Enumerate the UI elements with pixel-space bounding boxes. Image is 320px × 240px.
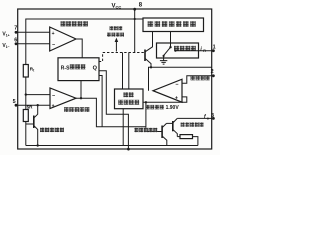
svg-text:−: − xyxy=(52,94,55,100)
block current switch U5 xyxy=(157,43,199,58)
svg-text:5R: 5R xyxy=(27,105,34,110)
reference voltage label xyxy=(146,105,180,111)
driver transistor label xyxy=(181,122,204,126)
wire driver collector to pin3 xyxy=(177,117,211,119)
transistor source Q2 xyxy=(145,32,153,68)
node reset emitter junction xyxy=(37,144,39,146)
node divider junction xyxy=(25,93,27,95)
frequency fo label xyxy=(204,114,210,121)
wire pin6 to comparator xyxy=(16,43,50,45)
pin 6 terminal xyxy=(14,37,17,45)
svg-text:1.90V: 1.90V xyxy=(166,105,180,111)
pin 7 terminal xyxy=(14,26,17,34)
bias label line2 xyxy=(107,33,124,37)
svg-text:+: + xyxy=(52,31,55,37)
svg-text:−: − xyxy=(175,82,178,88)
block RS flip-flop U2 xyxy=(58,58,99,81)
svg-text:6: 6 xyxy=(14,37,17,43)
op-amp timing comparator U3 xyxy=(50,88,76,109)
bias label line1 xyxy=(110,26,123,30)
protection transistor label xyxy=(134,128,157,132)
pin 4 ground junction xyxy=(127,148,130,151)
wire switch output xyxy=(174,50,211,52)
node pin8 rail junction xyxy=(134,18,136,20)
wire bias dashed rail xyxy=(99,53,144,62)
switch pivot xyxy=(169,46,171,48)
node Vi- label xyxy=(2,43,9,49)
resistor 5R xyxy=(23,105,33,122)
resistor emitter RE xyxy=(177,135,198,146)
wire Qbar output xyxy=(99,76,102,127)
wire pin2 rail xyxy=(149,67,212,90)
transistor protection Q3 xyxy=(162,123,167,145)
wire switch pivot feed xyxy=(170,32,172,48)
wire timing comparator output xyxy=(76,98,146,127)
svg-text:2: 2 xyxy=(211,69,214,75)
timing comparator label xyxy=(64,107,89,112)
wire R to node xyxy=(25,77,27,110)
pin 3 terminal xyxy=(211,113,215,120)
svg-text:R-S: R-S xyxy=(61,65,70,71)
wire RS R-input xyxy=(80,81,82,99)
block bandgap reference U4 xyxy=(115,89,144,109)
node base-ref junction xyxy=(145,101,147,103)
svg-text:Q: Q xyxy=(93,66,98,72)
svg-text:+: + xyxy=(175,96,178,102)
node collector-rail junction xyxy=(150,66,152,68)
transistor driver Q4 xyxy=(167,118,178,136)
svg-text:3: 3 xyxy=(211,113,214,119)
gain adjust label xyxy=(191,76,210,81)
switch arm xyxy=(164,47,171,55)
wire 5R to ground rail xyxy=(25,122,27,146)
pin 5 terminal xyxy=(13,99,18,107)
wire minus input from divider xyxy=(26,94,50,96)
svg-text:VCC: VCC xyxy=(112,4,122,10)
wire pin5 to timing comparator xyxy=(16,104,50,106)
pin 8 terminal xyxy=(133,3,143,11)
node reset collector junction xyxy=(37,104,39,106)
IC outer border xyxy=(18,9,212,149)
transistor reset Q1 xyxy=(26,105,38,145)
block precision current source U-src xyxy=(143,18,204,32)
op-amp input comparator U1 xyxy=(50,27,76,51)
svg-text:−: − xyxy=(52,43,55,49)
op-amp reference U6 xyxy=(153,79,182,102)
svg-text:5: 5 xyxy=(13,99,16,105)
wire pin7 to comparator xyxy=(16,31,50,33)
node comparator-RS junction xyxy=(80,97,82,99)
node Vi+ label xyxy=(2,32,9,38)
wire pin2 to minus input xyxy=(182,76,212,84)
ground rail wire xyxy=(26,145,198,147)
Vcc label xyxy=(112,4,122,10)
bias arrow xyxy=(115,38,119,52)
wire Q output to ground pin xyxy=(99,71,128,149)
svg-text:1: 1 xyxy=(213,44,216,50)
input comparator label xyxy=(61,21,88,26)
reset transistor label xyxy=(40,128,64,133)
wire plus input to bandgap xyxy=(143,97,187,102)
wire Vcc top rail xyxy=(26,19,143,65)
svg-text:+: + xyxy=(52,103,55,109)
wire pin8 drop xyxy=(134,9,136,53)
pin 1 terminal xyxy=(212,44,216,52)
wire bandgap feed B xyxy=(128,53,130,90)
wire comparator output to RS xyxy=(76,39,82,58)
current iR label xyxy=(200,46,206,53)
switch ground contact xyxy=(163,55,165,57)
svg-text:R: R xyxy=(203,49,206,53)
ground symbol xyxy=(160,56,167,64)
wire bandgap feed A xyxy=(122,53,124,90)
svg-text:7: 7 xyxy=(14,26,17,32)
resistor R xyxy=(23,65,35,78)
pin 2 terminal xyxy=(211,69,215,77)
wire protection base xyxy=(146,102,162,131)
wire bandgap ground drop xyxy=(122,109,124,146)
